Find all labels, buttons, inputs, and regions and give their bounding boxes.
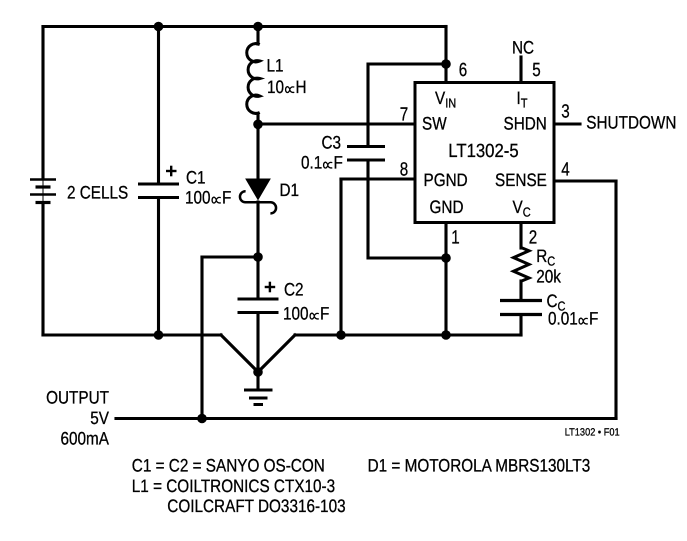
svg-text:C2: C2 bbox=[284, 280, 304, 300]
svg-text:F: F bbox=[334, 153, 343, 173]
svg-text:F: F bbox=[589, 309, 598, 329]
node pin1 / bus junction bbox=[441, 330, 451, 340]
svg-text:SW: SW bbox=[422, 114, 447, 134]
wire pin 6 vertical bbox=[444, 27, 447, 83]
capacitor CC bbox=[500, 301, 542, 315]
svg-text:SHUTDOWN: SHUTDOWN bbox=[586, 113, 676, 133]
wire C3 bottom branch to GND pin 1 bbox=[368, 162, 446, 259]
capacitor C1 bbox=[138, 184, 179, 198]
battery BT1 2 CELLS bbox=[30, 180, 56, 204]
wire output tap vertical bbox=[200, 257, 203, 419]
svg-text:SENSE: SENSE bbox=[495, 170, 547, 190]
svg-text:H: H bbox=[296, 77, 307, 97]
svg-text:6: 6 bbox=[459, 60, 467, 81]
svg-text:LT1302 • F01: LT1302 • F01 bbox=[565, 427, 620, 439]
ground symbol bbox=[244, 390, 273, 405]
svg-text:4: 4 bbox=[561, 160, 570, 181]
wire top rail from battery to pin 6 bbox=[43, 25, 446, 28]
svg-text:100: 100 bbox=[185, 188, 211, 208]
node PGND / bus junction bbox=[336, 330, 346, 340]
svg-text:D1: D1 bbox=[280, 180, 300, 200]
svg-text:NC: NC bbox=[512, 38, 534, 58]
svg-text:C3: C3 bbox=[322, 133, 342, 153]
wire D1 anode lead bbox=[256, 124, 259, 179]
node ground junction bbox=[253, 367, 263, 377]
wire C1 bottom lead bbox=[157, 199, 160, 335]
wire output line bbox=[116, 417, 616, 420]
wire pin 8 vertical to bus bbox=[339, 179, 342, 335]
wire CC bottom lead bbox=[519, 315, 522, 335]
wire ground stub bbox=[256, 372, 259, 389]
svg-text:5V: 5V bbox=[90, 408, 109, 428]
svg-text:RC: RC bbox=[536, 246, 555, 269]
wire pin 3 SHDN stub bbox=[554, 122, 580, 125]
svg-text:C1: C1 bbox=[186, 168, 206, 188]
wire C3 top branch to VIN node bbox=[368, 64, 446, 145]
svg-text:3: 3 bbox=[561, 102, 569, 123]
wire C1 top lead bbox=[157, 27, 160, 183]
svg-text:10: 10 bbox=[267, 77, 284, 97]
node output tap / output line junction bbox=[197, 414, 207, 424]
C2 plus sign bbox=[265, 282, 276, 293]
node top rail / L1 junction bbox=[253, 22, 263, 32]
svg-text:2 CELLS: 2 CELLS bbox=[67, 182, 128, 202]
resistor RC bbox=[514, 248, 530, 282]
svg-text:C1 = C2 = SANYO OS-CON: C1 = C2 = SANYO OS-CON bbox=[132, 456, 325, 476]
wire pin 5 stub NC bbox=[519, 57, 522, 83]
node C1 / bus junction bbox=[154, 330, 164, 340]
svg-text:OUTPUT: OUTPUT bbox=[46, 388, 109, 408]
svg-text:L1 = COILTRONICS CTX10-3: L1 = COILTRONICS CTX10-3 bbox=[132, 476, 335, 496]
wire pin 4 SENSE to right edge bbox=[554, 179, 616, 182]
wire RC to CC lead bbox=[519, 281, 522, 299]
svg-text:600mA: 600mA bbox=[61, 429, 109, 449]
svg-text:PGND: PGND bbox=[424, 170, 468, 190]
wire output tap horizontal bbox=[202, 255, 258, 258]
IC U1 LT1302-5 bbox=[415, 83, 554, 223]
svg-text:COILCRAFT DO3316-103: COILCRAFT DO3316-103 bbox=[167, 496, 345, 516]
capacitor C3 bbox=[347, 147, 385, 161]
svg-text:100: 100 bbox=[283, 304, 309, 324]
wire pin 7 SW bbox=[258, 122, 415, 125]
diode D1 schottky bbox=[240, 179, 276, 213]
svg-text:7: 7 bbox=[400, 105, 408, 126]
node SW / L1 / D1 junction bbox=[253, 120, 263, 130]
wire pin 2 lead to RC bbox=[519, 223, 522, 249]
svg-text:8: 8 bbox=[400, 160, 408, 181]
svg-text:LT1302-5: LT1302-5 bbox=[448, 141, 518, 162]
inductor L1 bbox=[247, 44, 260, 114]
wire battery bottom lead bbox=[41, 204, 44, 335]
svg-text:0.01: 0.01 bbox=[548, 309, 578, 329]
node GND pin1 / C3 junction bbox=[441, 253, 451, 263]
wire pin 8 PGND bbox=[341, 177, 415, 180]
wire ground bus right segment bbox=[295, 333, 521, 336]
svg-text:F: F bbox=[320, 304, 329, 324]
node VIN / C3 junction bbox=[441, 59, 451, 69]
wire L1 top lead bbox=[256, 27, 259, 45]
C1 plus sign bbox=[166, 166, 177, 177]
node D1 cathode / output tap junction bbox=[253, 252, 263, 262]
wire L1 bottom lead to SW node bbox=[256, 114, 259, 124]
wire pin 1 vertical bbox=[444, 223, 447, 336]
svg-text:20k: 20k bbox=[536, 267, 562, 287]
svg-text:0.1: 0.1 bbox=[301, 153, 322, 173]
svg-text:1: 1 bbox=[451, 228, 459, 249]
svg-text:GND: GND bbox=[430, 197, 464, 217]
svg-text:SHDN: SHDN bbox=[504, 114, 547, 134]
wire ground bus left segment bbox=[43, 333, 221, 336]
svg-text:D1 = MOTOROLA MBRS130LT3: D1 = MOTOROLA MBRS130LT3 bbox=[368, 456, 591, 476]
capacitor C2 bbox=[238, 299, 279, 313]
wire C2 bottom lead to ground node bbox=[256, 314, 259, 372]
wire ground bus V notch bbox=[221, 335, 295, 372]
svg-text:L1: L1 bbox=[267, 56, 284, 76]
wire D1 cathode lead down to C2 bbox=[256, 202, 259, 297]
wire right edge vertical bbox=[614, 181, 617, 419]
svg-text:F: F bbox=[222, 188, 231, 208]
wire battery top lead bbox=[41, 27, 44, 180]
svg-text:5: 5 bbox=[532, 60, 540, 81]
node top rail / C1 junction bbox=[154, 22, 164, 32]
